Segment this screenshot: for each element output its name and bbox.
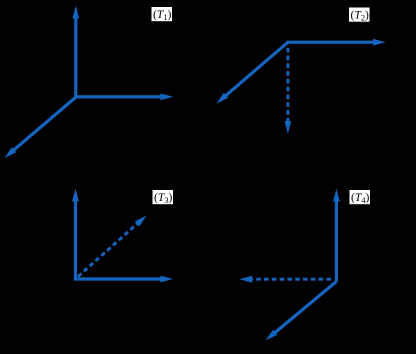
T1 axis arrow up [72, 6, 79, 99]
T1 axis arrow right [74, 93, 173, 100]
T3 axis arrow right [74, 276, 173, 283]
T2 axis arrow diagonal down-left [217, 42, 289, 103]
label (T1) [152, 7, 173, 22]
svg-text:(T4): (T4) [351, 191, 369, 205]
T4 dashed arrow left [239, 276, 331, 283]
label (T4) [350, 190, 371, 205]
T2 axis arrow right [287, 39, 386, 46]
label (T2) [349, 8, 370, 23]
T4 axis arrow diagonal down-left [266, 282, 337, 341]
T3 dashed arrow up-right diagonal [78, 216, 147, 277]
T3 axis arrow up [72, 189, 79, 281]
svg-text:(T1): (T1) [153, 8, 171, 22]
label (T3) [153, 190, 174, 205]
T1 axis arrow diagonal down-left [5, 97, 77, 158]
svg-text:(T3): (T3) [154, 191, 172, 205]
T4 axis arrow up [333, 189, 340, 282]
svg-text:(T2): (T2) [351, 9, 369, 23]
T2 dashed arrow down [285, 48, 292, 134]
